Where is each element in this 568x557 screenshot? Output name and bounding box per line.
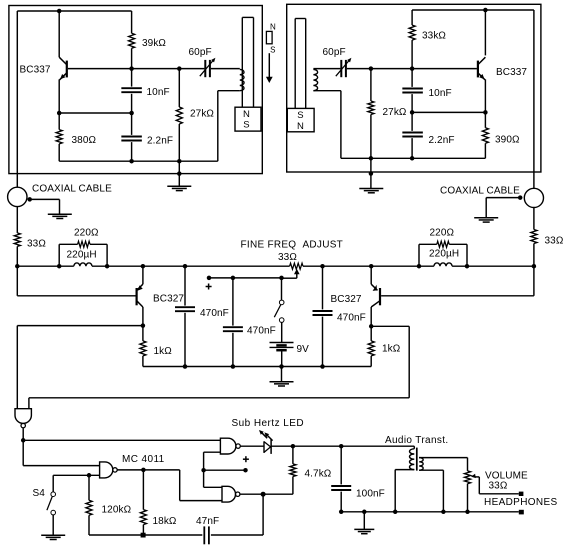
node junction [15, 264, 20, 269]
wire [131, 11, 133, 33]
svg-text:470nF: 470nF [200, 308, 229, 319]
svg-text:39kΩ: 39kΩ [142, 38, 166, 49]
ground [359, 189, 383, 193]
svg-text:33Ω: 33Ω [545, 236, 564, 247]
switch S4 [47, 475, 56, 535]
resistor 39k [129, 33, 135, 48]
node junction [320, 364, 325, 369]
wire [16, 11, 18, 187]
wire [533, 10, 535, 188]
wire [419, 244, 467, 266]
svg-text:470nF: 470nF [247, 326, 276, 337]
bar magnet [266, 31, 272, 43]
svg-text:33Ω: 33Ω [489, 481, 508, 492]
nand gate U1b [100, 462, 118, 478]
resistor 27k left [176, 69, 182, 162]
node junction [27, 197, 32, 202]
wire [411, 40, 413, 69]
wire [23, 439, 220, 441]
label Audio Transt. [385, 435, 448, 446]
resistor 1k left [140, 326, 146, 367]
node junction [57, 111, 62, 116]
magnet pole box S N [287, 108, 314, 131]
switch S1 [274, 278, 284, 343]
svg-text:MC 4011: MC 4011 [122, 454, 165, 465]
label S [297, 110, 303, 121]
resistor 27k right [368, 69, 374, 159]
ground [167, 186, 191, 190]
wire [209, 277, 282, 279]
svg-text:N: N [297, 121, 304, 132]
label 1kOhm [382, 344, 401, 355]
node junction [177, 66, 182, 71]
svg-text:380Ω: 380Ω [72, 135, 97, 146]
wire [395, 470, 414, 512]
transformer T1 primary [410, 449, 415, 470]
svg-text:18kΩ: 18kΩ [153, 516, 177, 527]
label 220uH [429, 249, 459, 260]
oscillator 1 enclosure box [9, 6, 262, 174]
nand gate U1c [220, 438, 240, 454]
label 470nF [247, 326, 276, 337]
wire [59, 244, 107, 266]
label 4.7kOhm [305, 469, 332, 480]
label 1kOhm [154, 346, 173, 357]
label 33kOhm [422, 31, 446, 42]
node junction [483, 110, 488, 115]
capacitor 100nF [331, 446, 351, 512]
node junction [369, 66, 374, 71]
svg-text:BC327: BC327 [153, 294, 184, 305]
label 60pF [323, 47, 346, 58]
wire [419, 458, 468, 471]
label FINE FREQ ADJUST [241, 240, 344, 251]
wire [419, 470, 443, 512]
label MC 4011 [122, 454, 165, 465]
node junction [279, 364, 284, 369]
wire [413, 446, 415, 449]
headphone terminal [519, 510, 524, 515]
label 47nF [196, 516, 219, 527]
svg-text:N: N [270, 22, 276, 31]
node junction [129, 159, 134, 164]
svg-text:HEADPHONES: HEADPHONES [484, 497, 558, 508]
node junction [393, 510, 398, 515]
wire [89, 534, 202, 536]
svg-text:470nF: 470nF [337, 313, 366, 324]
wire [16, 207, 18, 233]
nand gate U1a [15, 409, 31, 428]
svg-text:220Ω: 220Ω [74, 228, 99, 239]
wire [59, 112, 131, 114]
pot wiper [282, 269, 300, 278]
node junction [532, 264, 537, 269]
label 33Ohm [278, 252, 297, 263]
label 33Ohm [27, 239, 46, 250]
nand gate U1d [222, 486, 240, 502]
node junction [417, 264, 422, 269]
resistor 390 [482, 112, 488, 158]
capacitor 60pF trimmer [336, 58, 352, 77]
wire [117, 469, 179, 471]
capacitor 10nF [402, 69, 423, 113]
node junction [177, 159, 182, 164]
node junction [129, 66, 134, 71]
motion arrow [266, 53, 273, 83]
ground [41, 535, 65, 539]
wire [211, 494, 263, 535]
node junction [465, 264, 470, 269]
svg-text:33kΩ: 33kΩ [422, 31, 446, 42]
magnet pole box N S [235, 107, 261, 131]
node junction [177, 171, 182, 176]
node junction [57, 264, 62, 269]
node junction [243, 468, 248, 473]
ground [354, 512, 374, 534]
svg-text:220Ω: 220Ω [430, 228, 455, 239]
node junction [141, 533, 146, 538]
label S [270, 45, 275, 54]
node junction [105, 264, 110, 269]
label 27kOhm [190, 109, 214, 120]
ground [48, 214, 72, 218]
wire [341, 157, 486, 159]
label Sub Hertz LED [232, 418, 305, 429]
wire [17, 326, 143, 409]
node junction [410, 156, 415, 161]
wire main rail [17, 265, 534, 267]
transistor Q4 BC327 [371, 266, 380, 326]
wire [313, 91, 341, 159]
resistor 33 left [14, 233, 20, 247]
svg-text:10nF: 10nF [429, 88, 452, 99]
label COAXIAL CABLE [32, 184, 112, 195]
wire [381, 266, 534, 296]
wire [143, 366, 371, 368]
label BC327 [331, 294, 362, 305]
oscillator 2 enclosure box [287, 4, 541, 172]
svg-text:27kΩ: 27kΩ [190, 109, 214, 120]
wire [412, 9, 534, 11]
node junction [183, 364, 188, 369]
label BC337 [20, 65, 51, 76]
svg-text:10nF: 10nF [147, 87, 170, 98]
svg-text:BC337: BC337 [496, 67, 527, 78]
label BC327 [153, 294, 184, 305]
capacitor 60pF trimmer [200, 58, 216, 77]
label 470nF [337, 313, 366, 324]
label HEADPHONES [484, 497, 558, 508]
node junction [141, 468, 146, 473]
label 220Ohm [74, 228, 99, 239]
wire [30, 199, 60, 214]
potentiometer volume 33 [464, 471, 470, 512]
label 10nF [429, 88, 452, 99]
label 470nF [200, 308, 229, 319]
svg-text:100nF: 100nF [356, 489, 385, 500]
label 39kOhm [142, 38, 166, 49]
svg-text:Audio Transt.: Audio Transt. [385, 435, 448, 446]
svg-text:BC337: BC337 [20, 65, 51, 76]
svg-text:390Ω: 390Ω [495, 135, 520, 146]
node junction [369, 171, 374, 176]
node junction [129, 111, 134, 116]
node junction [57, 9, 62, 14]
label 2.2nF [429, 135, 455, 146]
transformer core [416, 448, 418, 471]
wire [204, 470, 222, 487]
led D1 [259, 430, 273, 454]
label 220Ohm [430, 228, 455, 239]
node junction [201, 468, 206, 473]
wire [211, 68, 240, 70]
coax connector [524, 188, 543, 207]
node junction [207, 276, 212, 281]
node junction [410, 66, 415, 71]
node junction [483, 8, 488, 13]
svg-text:2.2nF: 2.2nF [429, 135, 455, 146]
svg-text:4.7kΩ: 4.7kΩ [305, 469, 332, 480]
wire [486, 198, 520, 218]
svg-text:47nF: 47nF [196, 516, 219, 527]
label S4 [33, 488, 46, 499]
label N [270, 22, 276, 31]
wire [17, 266, 135, 296]
node junction [441, 510, 446, 515]
ground [270, 367, 294, 387]
label S [243, 120, 249, 131]
wire [313, 68, 477, 70]
label 380Ohm [72, 135, 97, 146]
wire [59, 160, 218, 162]
wire [370, 158, 372, 188]
wire [53, 474, 99, 476]
transistor Q1 BC337 [59, 11, 67, 113]
label 33Ohm [545, 236, 564, 247]
svg-text:S: S [243, 120, 249, 131]
wire [412, 111, 485, 113]
ferrite rod [295, 19, 306, 109]
svg-text:N: N [243, 109, 250, 120]
capacitor 2.2nF [121, 113, 142, 161]
resistor 220 [78, 241, 90, 247]
potentiometer 33 fine freq [290, 263, 303, 269]
label 27kOhm [383, 107, 407, 118]
node junction [410, 110, 415, 115]
coax connector [8, 187, 27, 206]
ferrite rod [242, 17, 253, 107]
node junction [339, 510, 344, 515]
resistor 4.7k [290, 446, 296, 494]
inductor 220uH [74, 263, 92, 266]
wire audio ground rail [341, 511, 519, 513]
node junction [231, 364, 236, 369]
node junction [87, 473, 92, 478]
transistor Q3 BC327 [137, 266, 143, 325]
capacitor 470nF mixer right [313, 266, 333, 366]
ground [474, 218, 498, 222]
svg-text:S: S [297, 110, 303, 121]
headphone terminal [519, 492, 524, 496]
inductor search coil L2 [313, 69, 317, 90]
wire [17, 10, 131, 12]
svg-text:COAXIAL CABLE: COAXIAL CABLE [440, 186, 520, 197]
wire [533, 208, 535, 230]
label 390Ohm [495, 135, 520, 146]
svg-text:60pF: 60pF [189, 47, 212, 58]
resistor 33k [409, 25, 415, 40]
node junction [141, 323, 146, 328]
transformer T1 secondary [419, 458, 423, 471]
label 60pF [189, 47, 212, 58]
wire [240, 445, 264, 447]
label 120kOhm [102, 505, 132, 516]
svg-text:2.2nF: 2.2nF [147, 136, 173, 147]
resistor 220 [437, 241, 449, 247]
node junction [231, 276, 236, 281]
capacitor 470nF middle [223, 278, 243, 367]
label N [243, 109, 250, 120]
resistor 380 [56, 113, 62, 161]
node junction [261, 492, 266, 497]
node junction [465, 510, 470, 515]
wire [16, 246, 18, 266]
wire [68, 68, 205, 70]
capacitor 470nF mixer left [175, 266, 195, 366]
svg-text:220µH: 220µH [67, 250, 97, 261]
label N [297, 121, 304, 132]
pot wiper [471, 474, 519, 494]
wire [180, 470, 222, 501]
wire [29, 326, 409, 408]
svg-text:120kΩ: 120kΩ [102, 505, 132, 516]
wire [204, 452, 221, 470]
svg-text:220µH: 220µH [429, 249, 459, 260]
node junction [369, 156, 374, 161]
label 9V [297, 344, 310, 355]
wire [204, 469, 246, 471]
node junction [339, 444, 344, 449]
node junction [279, 276, 284, 281]
svg-text:FINE FREQ ADJUST: FINE FREQ ADJUST [241, 240, 344, 251]
node junction [141, 264, 146, 269]
label VOLUME [485, 471, 528, 482]
node junction [369, 324, 374, 329]
svg-text:27kΩ: 27kΩ [383, 107, 407, 118]
wire [22, 428, 24, 440]
wire [131, 48, 133, 68]
label 33Ohm [489, 481, 508, 492]
svg-text:BC327: BC327 [331, 294, 362, 305]
node junction [183, 264, 188, 269]
svg-text:1kΩ: 1kΩ [382, 344, 401, 355]
svg-text:Sub Hertz LED: Sub Hertz LED [232, 418, 305, 429]
node junction [21, 438, 26, 443]
resistor 120k [86, 475, 92, 535]
inductor 220uH [434, 263, 452, 266]
transistor Q2 BC337 [478, 10, 486, 112]
resistor 33 right [531, 230, 537, 244]
capacitor 47nF [204, 526, 209, 544]
battery 9V [270, 343, 294, 367]
resistor 1k right [368, 326, 374, 366]
svg-text:COAXIAL CABLE: COAXIAL CABLE [32, 184, 112, 195]
wire [271, 445, 414, 447]
svg-text:S4: S4 [33, 488, 46, 499]
node junction [369, 264, 374, 269]
inductor search coil L1 [240, 69, 244, 90]
label COAXIAL CABLE [440, 186, 520, 197]
capacitor 2.2nF [402, 112, 423, 158]
label 100nF [356, 489, 385, 500]
label plus [206, 284, 212, 290]
wire [533, 244, 535, 267]
wire [411, 10, 413, 25]
label 18kOhm [153, 516, 177, 527]
node junction [518, 195, 523, 200]
label BC337 [496, 67, 527, 78]
svg-text:33Ω: 33Ω [27, 239, 46, 250]
svg-text:9V: 9V [297, 344, 310, 355]
label plus [243, 456, 249, 462]
label 220uH [67, 250, 97, 261]
node junction [362, 510, 367, 515]
label 2.2nF [147, 136, 173, 147]
wire [240, 493, 293, 495]
svg-text:60pF: 60pF [323, 47, 346, 58]
svg-text:S: S [270, 45, 275, 54]
wire [218, 91, 240, 162]
wire [23, 440, 99, 465]
node junction [320, 264, 325, 269]
resistor 18k [140, 470, 146, 535]
node junction [291, 444, 296, 449]
wire [178, 161, 180, 186]
svg-text:1kΩ: 1kΩ [154, 346, 173, 357]
label 10nF [147, 87, 170, 98]
capacitor 10nF [121, 69, 142, 113]
